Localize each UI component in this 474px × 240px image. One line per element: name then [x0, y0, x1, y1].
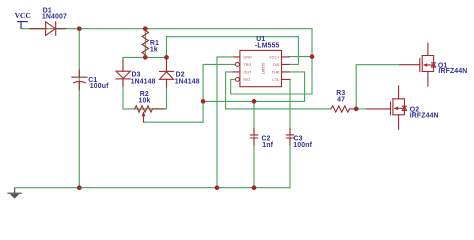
svg-text:100nf: 100nf: [293, 142, 312, 149]
svg-text:GND: GND: [244, 56, 253, 60]
svg-text:DIS: DIS: [273, 63, 280, 67]
svg-text:-LM555: -LM555: [255, 42, 280, 49]
svg-text:OUT: OUT: [244, 71, 253, 75]
svg-text:1nf: 1nf: [262, 142, 273, 149]
svg-text:10k: 10k: [139, 97, 151, 104]
svg-text:LM555: LM555: [261, 62, 265, 74]
svg-text:47: 47: [337, 97, 345, 104]
svg-text:CTL: CTL: [272, 78, 279, 82]
svg-text:THR: THR: [272, 71, 280, 75]
svg-text:1N4007: 1N4007: [42, 14, 67, 21]
svg-text:TRG: TRG: [244, 63, 252, 67]
svg-text:VCC+: VCC+: [269, 56, 279, 60]
svg-text:100uf: 100uf: [90, 83, 109, 90]
svg-text:1N4148: 1N4148: [131, 78, 156, 85]
svg-text:IRFZ44N: IRFZ44N: [438, 68, 467, 75]
svg-text:RST: RST: [244, 78, 252, 82]
svg-text:IRFZ44N: IRFZ44N: [410, 112, 439, 119]
svg-text:VCC: VCC: [15, 11, 31, 20]
svg-text:1N4148: 1N4148: [175, 78, 200, 85]
svg-text:1k: 1k: [150, 46, 158, 53]
